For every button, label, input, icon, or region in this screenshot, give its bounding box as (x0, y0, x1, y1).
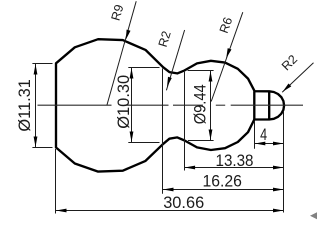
svg-text:Ø9.44: Ø9.44 (190, 84, 209, 124)
dimension Ø10.30 extension lines (128, 67, 159, 69)
edge line cylinder-sphere tangent (253, 91, 255, 119)
dimension 4 line with arrows (255, 143, 284, 145)
part outline profile (56, 39, 284, 171)
dimension Ø9.44 extension lines (188, 70, 214, 72)
svg-text:R2: R2 (279, 52, 300, 73)
radius leader R6 arrow (226, 48, 231, 58)
dimension 30.66 line with arrows (56, 210, 284, 212)
edge line cylinder-end cap (268, 91, 270, 119)
radius leader R6 line (211, 12, 243, 101)
svg-text:Ø11.31: Ø11.31 (15, 79, 34, 131)
dimension 13.38 line with arrows (185, 167, 284, 169)
radius leader R2 neck line (166, 30, 184, 90)
svg-text:R2: R2 (156, 29, 174, 48)
dimension Ø10.30 line with arrows (131, 68, 133, 143)
svg-text:16.26: 16.26 (202, 171, 242, 190)
radius leader R2 end arrow (283, 84, 292, 92)
svg-text:R6: R6 (217, 15, 236, 35)
extension line cylinder start (254, 121, 256, 149)
radius leader R9 line (107, 1, 136, 105)
extension line right (tip) (283, 112, 285, 213)
svg-text:R9: R9 (109, 3, 127, 22)
svg-text:Ø10.30: Ø10.30 (114, 75, 133, 129)
dimension Ø11.31 extension lines (32, 63, 52, 65)
radius leader R9 arrow (126, 30, 131, 40)
dimension Ø9.44 line with arrows (210, 71, 212, 141)
centerline (38, 104, 112, 106)
svg-text:4: 4 (260, 125, 267, 144)
extension line left (face) (55, 149, 57, 214)
dimension Ø11.31 line with arrows (35, 64, 37, 148)
radius leader R2 neck arrow (167, 77, 172, 87)
svg-text:13.38: 13.38 (216, 151, 254, 170)
extension line T2 (184, 72, 186, 171)
extension line T1 (162, 69, 164, 194)
svg-text:30.66: 30.66 (163, 193, 204, 212)
radius leader R2 end line (282, 63, 313, 92)
cursor arrow (gray) (310, 212, 317, 219)
dimension 16.26 line with arrows (163, 189, 284, 191)
